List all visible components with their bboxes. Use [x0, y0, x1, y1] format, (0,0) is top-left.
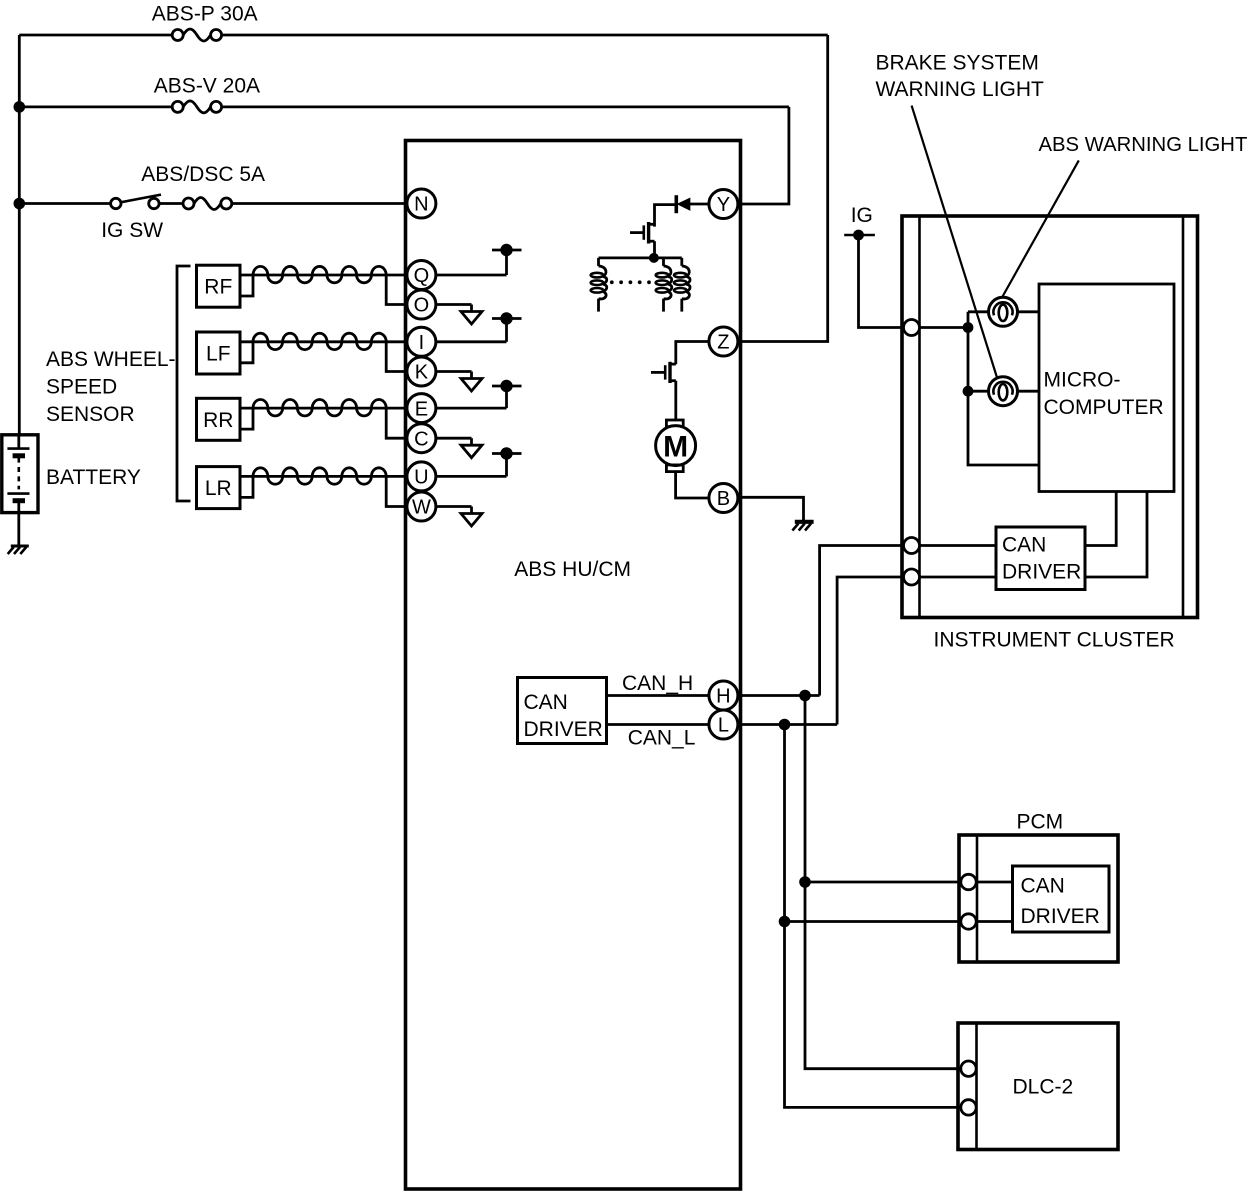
terminal H [709, 681, 738, 710]
arrow: internal continuation (W) [461, 514, 482, 527]
terminal Y [709, 190, 738, 219]
terminal U [407, 462, 436, 491]
wheel speed sensor RF [197, 265, 241, 307]
svg-text:N: N [414, 194, 428, 216]
terminal B [709, 484, 738, 513]
wire: terminal I internal to test point [436, 340, 507, 343]
node: rail junction ABS-V [13, 101, 25, 113]
ECU box PCM [959, 835, 1118, 962]
IC box MICRO-COMPUTER [1039, 284, 1174, 492]
terminal I [407, 327, 436, 356]
svg-text:BRAKE SYSTEM: BRAKE SYSTEM [876, 52, 1039, 75]
inductor: solenoid coil (mid) [662, 258, 665, 266]
svg-text:PCM: PCM [1017, 811, 1064, 834]
svg-text:ABS WARNING LIGHT: ABS WARNING LIGHT [1039, 134, 1248, 156]
wire: PCM pins to CAN driver [977, 881, 1013, 884]
terminal W [407, 492, 436, 521]
ECU box DLC-2 [958, 1023, 1118, 1150]
svg-text:Y: Y [717, 194, 730, 216]
wire: RF twisted pair to terminals [240, 274, 407, 277]
pin: DLC-2 CAN_L [961, 1100, 976, 1115]
wire: battery positive rail [18, 35, 21, 435]
svg-text:DRIVER: DRIVER [1002, 561, 1081, 584]
wheel speed sensor LF [197, 332, 241, 374]
wire: ABS-V feed to Y [19, 106, 172, 109]
pin: PCM CAN_L [961, 914, 976, 929]
lamp: brake system warning light [989, 377, 1018, 406]
svg-text:C: C [414, 428, 428, 450]
wheel speed sensor RR [197, 398, 241, 440]
svg-text:IG SW: IG SW [101, 219, 163, 242]
wire: diode to FET drain [655, 205, 677, 227]
ECU box ABS HU/CM [406, 141, 741, 1190]
connector rail (PCM) [976, 835, 979, 962]
wire: Z to pump FET [676, 342, 709, 365]
svg-text:ABS-V 20A: ABS-V 20A [154, 75, 260, 98]
svg-text:LF: LF [206, 343, 231, 366]
terminal Q [407, 261, 436, 290]
wire: LF twisted pair to terminals [240, 340, 407, 343]
transistor Q2 (pump motor FET) [651, 371, 665, 374]
callout line to brake warning lamp [912, 106, 997, 378]
inductor: solenoid coil (right) [680, 258, 683, 266]
terminal C [407, 424, 436, 453]
svg-text:SENSOR: SENSOR [46, 403, 135, 426]
svg-text:CAN_H: CAN_H [622, 672, 693, 695]
arrow: internal continuation (K) [461, 379, 482, 392]
wire: CAN_L bus down to PCM / DLC-2 [783, 725, 786, 922]
IC box CAN DRIVER (ABS) [518, 678, 607, 744]
ground: ABS ground [795, 520, 814, 524]
svg-text:IG: IG [851, 204, 873, 227]
node: internal connection bar (E) [492, 385, 522, 388]
wheel speed sensor LR [197, 467, 241, 509]
wire: Y to diode [689, 203, 709, 206]
node: CAN_L junction [779, 719, 791, 731]
switch IG SW [111, 198, 121, 208]
transistor Q1 (solenoid driver FET) [630, 231, 644, 234]
node: internal connection bar (U) [492, 452, 522, 455]
terminal Z [709, 327, 738, 356]
fuse ABS-V 20A [172, 101, 183, 112]
wire: terminal O internal to arrow [436, 303, 472, 306]
wire: lamps to microcomputer [1018, 310, 1040, 313]
pin: cluster IG [904, 320, 920, 336]
svg-text:LR: LR [205, 477, 232, 500]
wire: solenoid top bus [599, 256, 682, 259]
svg-text:K: K [415, 362, 429, 384]
svg-text:INSTRUMENT CLUSTER: INSTRUMENT CLUSTER [934, 629, 1175, 652]
wire: motor to B [676, 472, 709, 498]
connector rail (cluster left) [918, 216, 921, 618]
wire: IG pin to lamps [920, 326, 969, 329]
ground: battery ground [11, 545, 29, 548]
coupling dots [610, 280, 614, 284]
svg-text:CAN: CAN [524, 691, 568, 714]
svg-text:ABS HU/CM: ABS HU/CM [514, 558, 631, 581]
connector rail (cluster right) [1182, 216, 1185, 618]
svg-text:E: E [415, 398, 428, 420]
fuse ABS-P 30A [172, 30, 183, 41]
coil: RF harness coil [253, 266, 386, 282]
svg-text:O: O [414, 295, 430, 317]
svg-text:COMPUTER: COMPUTER [1044, 396, 1164, 419]
node: internal connection bar (I) [492, 317, 522, 320]
wire: CAN driver to microcomputer [1085, 492, 1116, 546]
wire: rail to IG switch [19, 202, 110, 205]
svg-text:BATTERY: BATTERY [46, 466, 141, 489]
wire: CAN_H bus down to PCM / DLC-2 [804, 696, 807, 883]
wire: terminal E internal to test point [436, 407, 507, 410]
wire: switch to fuse [159, 202, 183, 205]
wire: B to ground [738, 497, 804, 522]
svg-text:H: H [716, 686, 730, 708]
svg-text:RR: RR [203, 409, 233, 432]
wire: fuse to terminal N [232, 202, 407, 205]
wire: terminal W internal to arrow [436, 505, 472, 508]
wire: terminal K internal to arrow [436, 370, 472, 373]
svg-text:WARNING LIGHT: WARNING LIGHT [876, 78, 1045, 101]
IC box CAN DRIVER (cluster) [996, 527, 1085, 590]
wire: FET source to motor [674, 381, 677, 420]
svg-text:B: B [717, 488, 730, 510]
svg-text:Z: Z [717, 332, 729, 354]
wire: CAN_L bus to cluster [738, 723, 837, 726]
wire: terminal Q internal to test point [436, 274, 507, 277]
svg-text:ABS/DSC 5A: ABS/DSC 5A [141, 163, 265, 186]
svg-text:MICRO-: MICRO- [1044, 369, 1121, 392]
connector rail (DLC-2) [975, 1023, 978, 1150]
coil: LR harness coil [253, 468, 386, 484]
wire: RR twisted pair to terminals [240, 407, 407, 410]
svg-text:CAN: CAN [1021, 875, 1065, 898]
wire: terminal U internal to test point [436, 475, 507, 478]
svg-text:SPEED: SPEED [46, 376, 117, 399]
coil: LF harness coil [253, 333, 386, 349]
node: solenoid common junction [649, 253, 659, 263]
battery BATTERY [2, 435, 38, 513]
brace for wheel speed sensors [177, 266, 191, 501]
wire: IG to cluster [859, 235, 905, 328]
wire: cluster pins to CAN driver [920, 544, 997, 547]
svg-text:U: U [414, 467, 428, 489]
wire: LR twisted pair to terminals [240, 475, 407, 478]
svg-text:DRIVER: DRIVER [1021, 905, 1100, 928]
callout line to ABS warning lamp [998, 160, 1079, 305]
svg-text:I: I [419, 332, 425, 354]
arrow: internal continuation (O) [461, 312, 482, 325]
svg-text:M: M [663, 430, 688, 463]
motor M (pump motor) [666, 420, 683, 427]
wire: CAN_H internal [607, 694, 709, 697]
terminal E [407, 394, 436, 423]
svg-text:CAN: CAN [1002, 534, 1046, 557]
coil: RR harness coil [253, 400, 386, 416]
wire: CAN_L internal [607, 723, 709, 726]
terminal N [407, 189, 436, 218]
inductor: solenoid coil (left) [597, 258, 600, 266]
node: rail junction ABS/DSC [13, 198, 25, 210]
svg-text:Q: Q [414, 265, 430, 287]
terminal O [407, 290, 436, 319]
svg-text:DRIVER: DRIVER [524, 718, 603, 741]
pin: cluster CAN_L [904, 569, 920, 585]
pin: PCM CAN_H [961, 874, 976, 889]
wire: CAN_H bus to cluster [738, 694, 820, 697]
svg-text:CAN_L: CAN_L [628, 727, 696, 750]
node: internal connection bar (Q) [492, 249, 522, 252]
svg-text:DLC-2: DLC-2 [1013, 1076, 1074, 1099]
svg-text:ABS WHEEL-: ABS WHEEL- [46, 348, 176, 371]
svg-text:W: W [412, 497, 431, 519]
node IG supply [844, 234, 875, 237]
svg-text:ABS-P 30A: ABS-P 30A [152, 3, 258, 26]
pin: cluster CAN_H [904, 538, 920, 554]
IC box CAN DRIVER (PCM) [1013, 866, 1110, 932]
svg-text:RF: RF [204, 276, 232, 299]
terminal L [709, 710, 738, 739]
fuse ABS/DSC 5A [183, 198, 194, 209]
wire: terminal C internal to arrow [436, 437, 472, 440]
wire: ABS-P feed to Z [19, 34, 172, 37]
lamp: ABS warning light [989, 297, 1018, 326]
node: CAN_H junction [799, 690, 811, 702]
wire: FET source to transformer [653, 241, 656, 258]
diode D1 [674, 195, 678, 213]
terminal K [407, 357, 436, 386]
arrow: internal continuation (C) [461, 445, 482, 458]
ECU box INSTRUMENT CLUSTER [902, 216, 1198, 618]
pin: DLC-2 CAN_H [961, 1061, 976, 1076]
svg-text:L: L [718, 715, 729, 737]
